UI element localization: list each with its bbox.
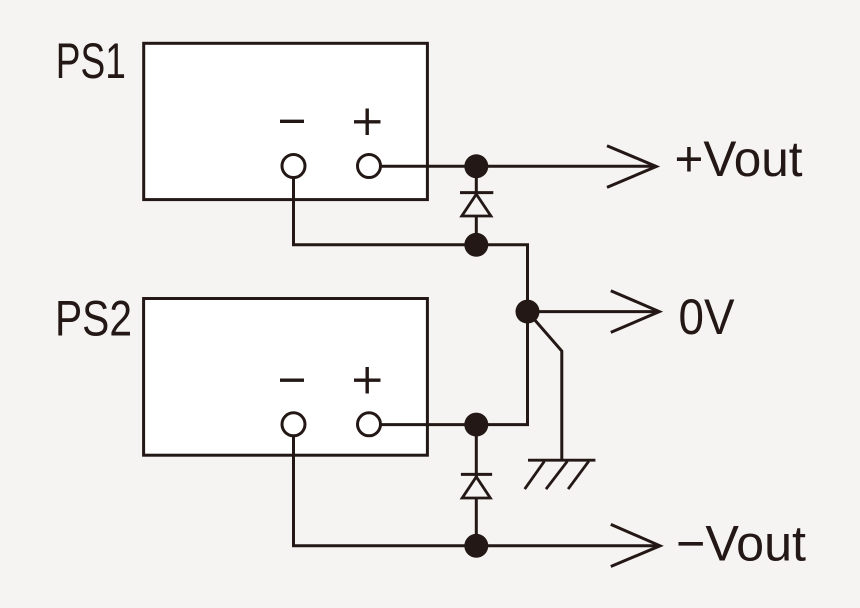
svg-text:PS2: PS2 <box>55 290 132 346</box>
wire PS2 plus to node D <box>380 423 476 426</box>
PS2 minus terminal <box>282 413 305 436</box>
wire node C to ground <box>528 312 562 460</box>
arrow +Vout <box>607 146 656 188</box>
node B junction dot <box>464 233 488 257</box>
node E junction dot <box>464 534 488 558</box>
wire node B right, down, left to node D <box>476 245 527 425</box>
svg-text:PS1: PS1 <box>56 33 126 89</box>
ground <box>525 460 596 489</box>
wire PS1 plus to +Vout <box>380 165 656 168</box>
svg-text:−Vout: −Vout <box>676 516 806 572</box>
wire PS1 minus down and right to node B <box>294 177 477 245</box>
svg-text:0V: 0V <box>679 289 736 345</box>
diode D2 <box>461 425 492 546</box>
diode D1 <box>460 166 493 245</box>
node A junction dot <box>464 154 488 178</box>
PS2 minus sign <box>280 379 304 382</box>
power supply PS2 box <box>144 299 428 456</box>
PS2 plus sign <box>354 367 381 394</box>
wire PS2 minus down and right to -Vout <box>294 436 661 546</box>
node C junction dot <box>516 300 540 324</box>
arrow -Vout <box>611 524 660 566</box>
wire node C to 0V <box>528 310 660 313</box>
power supply PS1 box <box>144 43 428 199</box>
node D junction dot <box>464 413 488 437</box>
PS1 minus terminal <box>282 155 305 178</box>
PS1 minus sign <box>280 120 304 123</box>
PS2 plus terminal <box>358 413 381 436</box>
PS1 plus sign <box>354 109 381 136</box>
PS1 plus terminal <box>358 155 381 178</box>
arrow 0V <box>611 291 660 333</box>
svg-text:+Vout: +Vout <box>675 131 803 187</box>
